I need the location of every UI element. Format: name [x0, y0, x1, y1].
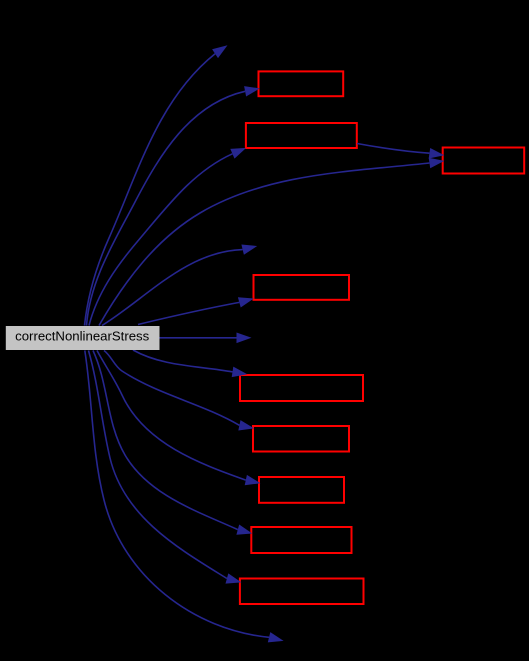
svg-text:correctNonlinearStress: correctNonlinearStress [15, 328, 150, 343]
